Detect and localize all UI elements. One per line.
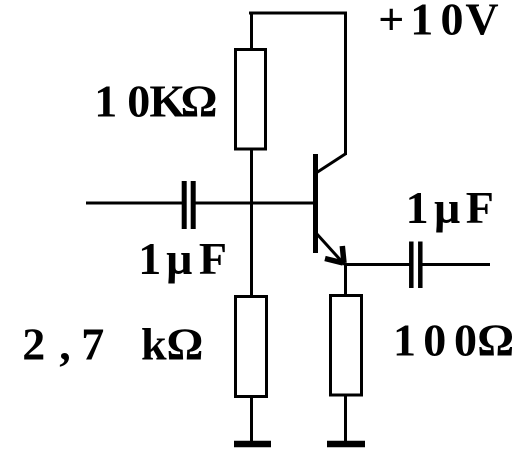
transistor Q1 base bar: [313, 154, 318, 253]
capacitor C2 plates: [411, 242, 420, 289]
wire: R1 bottom through node down to R2 top: [250, 148, 253, 298]
wire: R2 bottom to ground: [250, 396, 253, 443]
wire: collector diagonal into base bar: [316, 154, 346, 174]
ground right: [327, 441, 365, 448]
resistor R1 10KΩ: [236, 50, 266, 150]
wire: C1 to base (through node): [193, 202, 315, 205]
wire: emitter down to R3 top: [344, 263, 347, 297]
transistor Q1 emitter arrowhead: [325, 246, 344, 263]
wire: emitter diagonal: [316, 233, 345, 265]
wire: C2 to output: [421, 263, 491, 266]
wire: +10V rail horizontal: [249, 12, 347, 15]
resistor R2 2,7kΩ: [236, 297, 267, 397]
ground left: [234, 441, 271, 448]
svg-text:10KΩ: 10KΩ: [94, 75, 217, 126]
wire: emitter junction to C2: [344, 263, 410, 266]
svg-text:100Ω: 100Ω: [393, 315, 514, 366]
svg-text:1µF: 1µF: [138, 233, 227, 284]
wire: R3 bottom to ground: [344, 394, 347, 441]
wire: rail down to R1 top: [250, 12, 253, 52]
resistor R3 100Ω: [331, 296, 362, 396]
wire: input left segment to C1: [86, 202, 184, 205]
capacitor C1 plates: [184, 181, 193, 229]
wire: rail down to collector: [344, 12, 347, 156]
svg-text:1µF: 1µF: [406, 182, 494, 233]
